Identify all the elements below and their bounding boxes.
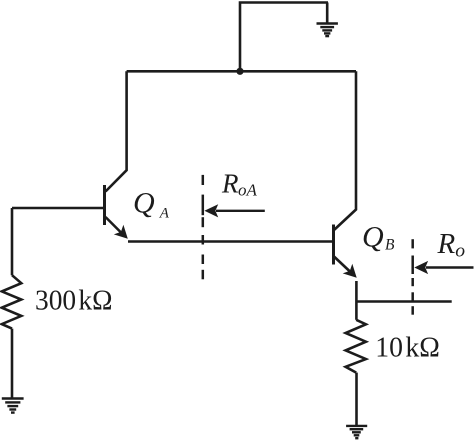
wire top vertical from node to top rail (240, 3, 328, 72)
wire resistor to ground left (11, 329, 14, 398)
svg-text:R: R (437, 228, 456, 260)
svg-text:10 kΩ: 10 kΩ (375, 332, 440, 364)
arrow RoA (points left) (204, 204, 264, 217)
wire main top rail (127, 70, 356, 73)
resistor R1 300k zigzag (2, 275, 22, 328)
transistor Q_B (334, 225, 352, 274)
svg-text:300 kΩ: 300 kΩ (35, 285, 113, 317)
arrow Ro (points left) (414, 261, 473, 274)
wire right drop to QB collector (334, 71, 356, 230)
svg-text:o: o (455, 242, 465, 262)
svg-text:Q: Q (362, 221, 384, 254)
ground G2 bottom-left (2, 399, 24, 413)
resistor R2 10k zigzag (346, 320, 366, 373)
wire left drop to QA collector (106, 71, 127, 191)
svg-text:A: A (159, 205, 170, 221)
dashed line RoA cut (202, 175, 205, 279)
wire QB emitter vertical (355, 281, 358, 320)
svg-text:oA: oA (238, 181, 258, 200)
wire QA emitter horizontal to QB base (128, 240, 334, 243)
transistor Q_B emitter arrowhead (343, 264, 357, 278)
ground G3 bottom-right (346, 426, 367, 438)
svg-text:Q: Q (133, 187, 155, 220)
ground G1 top (317, 24, 338, 37)
wire output stub (356, 300, 451, 303)
node A junction dot (236, 68, 243, 75)
wire QA base wire (12, 207, 105, 210)
transistor Q_A (105, 185, 124, 235)
svg-text:R: R (221, 168, 239, 198)
wire left vertical to resistor (11, 208, 14, 275)
svg-text:B: B (385, 237, 395, 254)
transistor Q_A emitter arrowhead (114, 225, 128, 239)
dashed line Ro cut (411, 239, 414, 315)
wire 10k resistor to ground (355, 373, 358, 426)
